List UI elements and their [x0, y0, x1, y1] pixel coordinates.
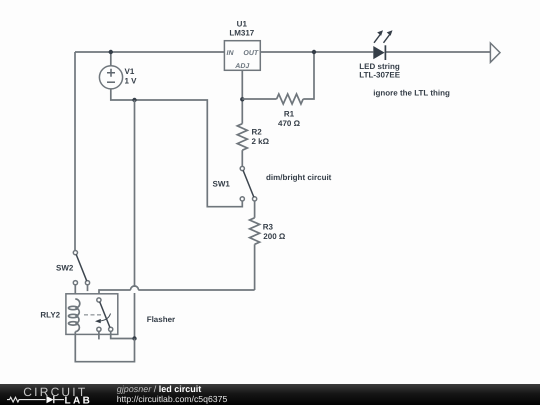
LED (LED string LTL-307EE) — [373, 30, 392, 60]
svg-text:OUT: OUT — [243, 50, 259, 57]
wire: OUT to LED — [260, 51, 373, 53]
wire: bottom loop back to coil — [75, 332, 134, 362]
regulator U1 LM317 — [224, 41, 260, 71]
footer url text — [117, 394, 228, 404]
svg-text:LAB: LAB — [65, 396, 93, 405]
wire: V1 bottom to corner and down to SW1 left throw — [111, 89, 243, 207]
node: junction relay return — [132, 336, 136, 340]
svg-text:ignore the LTL thing: ignore the LTL thing — [373, 89, 450, 98]
wire: V1 top stub — [110, 52, 112, 66]
output port flag — [490, 43, 500, 62]
svg-text:SW1: SW1 — [213, 180, 231, 189]
svg-text:LM317: LM317 — [229, 29, 254, 38]
hop mask: white gap under hop — [131, 287, 139, 293]
svg-text:1 V: 1 V — [125, 77, 138, 86]
CircuitLab logo — [0, 384, 110, 405]
svg-text:U1: U1 — [237, 19, 248, 28]
dashed actuator line — [84, 314, 101, 316]
svg-text:V1: V1 — [125, 67, 135, 76]
svg-text:Flasher: Flasher — [147, 315, 175, 324]
svg-text:2 kΩ: 2 kΩ — [252, 137, 270, 146]
svg-text:R3: R3 — [263, 222, 274, 231]
relay RLY2 — [66, 294, 118, 335]
wire: R1 branch from top rail down — [303, 52, 314, 99]
svg-text:IN: IN — [227, 50, 235, 57]
voltage source V1 — [99, 66, 122, 89]
svg-text:LTL-307EE: LTL-307EE — [359, 71, 400, 80]
svg-text:R2: R2 — [252, 127, 263, 136]
node: junction at ADJ / R1 / R2 — [240, 97, 244, 101]
node: junction on top rail at R1 branch — [312, 50, 316, 54]
wire: LED cathode to output port — [386, 51, 490, 53]
wire: top rail from left corner to LED anode — [75, 51, 224, 53]
relay switch — [97, 298, 101, 302]
svg-text:ADJ: ADJ — [234, 63, 250, 70]
resistor R2 — [237, 124, 247, 167]
svg-text:470 Ω: 470 Ω — [278, 119, 301, 128]
actuator arrow — [99, 314, 111, 322]
wire: SW2 left throw to relay coil — [74, 285, 76, 299]
wire: rail from junction down to relay junction (with hop at y=290) — [134, 100, 136, 339]
footer credit text — [117, 384, 202, 394]
resistor R1 — [242, 94, 303, 104]
wire: relay NC stub (dangling) — [98, 331, 100, 339]
wire: relay NO to junction — [111, 331, 135, 338]
wire: left rail down to SW2 — [74, 52, 76, 251]
logo schematic squiggle — [7, 397, 46, 402]
svg-text:SW2: SW2 — [56, 263, 74, 272]
coil — [75, 299, 80, 332]
node: junction V1 top on rail — [109, 50, 113, 54]
switch SW2 — [73, 251, 89, 292]
switch SW1 — [240, 166, 257, 201]
footer bar — [0, 384, 540, 405]
node: junction on V1 bottom wire — [132, 98, 136, 102]
wire hop over rail — [131, 286, 139, 290]
svg-text:R1: R1 — [284, 109, 295, 118]
svg-text:dim/bright circuit: dim/bright circuit — [266, 173, 332, 182]
wire: SW1 right throw down to R3 — [254, 201, 256, 218]
wire: ADJ stub down to junction — [241, 70, 243, 123]
svg-text:RLY2: RLY2 — [40, 311, 60, 320]
wire: R3 bottom left to relay common with hop over rail — [99, 286, 255, 298]
svg-text:200 Ω: 200 Ω — [263, 232, 286, 241]
resistor R3 — [250, 218, 260, 290]
